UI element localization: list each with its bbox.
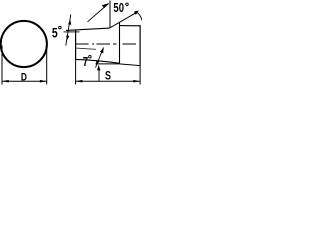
faint inner 7 deg reference line from tip bbox=[76, 48, 96, 49]
50 deg left arrowhead bbox=[102, 3, 109, 8]
arrowhead right of D dimension bbox=[40, 80, 47, 83]
arrowhead right of S dimension bbox=[133, 80, 140, 83]
extension line left of S dimension (below tip face) bbox=[75, 60, 77, 85]
50 deg arc tail curving to image edge bbox=[137, 12, 142, 20]
extension line left of D dimension bbox=[1, 46, 3, 85]
side view: cylinder top edge bbox=[120, 25, 141, 27]
7 deg diagonal arrowhead bbox=[100, 47, 104, 53]
arrowhead left of S dimension bbox=[76, 80, 83, 83]
arrowhead left of D dimension bbox=[2, 80, 9, 83]
centerline axis dash-dot bbox=[76, 43, 136, 45]
5 deg upper arrowhead bbox=[68, 20, 71, 25]
7 deg diagonal lower arrowhead bbox=[96, 61, 99, 66]
5 deg dimension arc line bbox=[66, 14, 71, 45]
svg-text:50: 50 bbox=[113, 2, 124, 16]
dimension line D bbox=[2, 80, 47, 82]
5 deg horizontal reference line bbox=[64, 31, 80, 33]
50 deg arrowhead on chamfer extension bbox=[134, 10, 139, 15]
7 deg leader diagonal with arrowhead at top bbox=[96, 48, 104, 68]
extension line right of D dimension bbox=[46, 45, 48, 85]
side view: 50 deg chamfer line extended with arrow bbox=[110, 12, 137, 28]
side view: top edge 5 deg taper bbox=[66, 28, 110, 30]
dimension line S bbox=[76, 80, 141, 82]
5 deg lower arrowhead bbox=[66, 35, 69, 40]
50 deg arc line left with arrow bbox=[88, 4, 109, 22]
7 deg vertical leader from S dimension line bbox=[98, 69, 100, 82]
side view: junction vertical between taper and cylinder bbox=[119, 23, 121, 64]
svg-text:7: 7 bbox=[83, 56, 88, 70]
side view: right face bbox=[139, 25, 141, 66]
50 deg vertical reference line bbox=[109, 1, 111, 29]
extension line right of S dimension (below right face) bbox=[139, 66, 141, 85]
circle front view of part, diameter D bbox=[1, 21, 47, 67]
side view: left tip face bbox=[75, 30, 77, 60]
svg-text:D: D bbox=[21, 71, 27, 83]
svg-text:5: 5 bbox=[52, 25, 58, 41]
svg-text:S: S bbox=[105, 70, 111, 82]
side view: cylinder bottom edge with reference extension to left bbox=[96, 64, 141, 66]
side view: bottom edge 7 deg taper bbox=[76, 59, 120, 63]
7 deg up arrowhead pointing at reference line bbox=[97, 65, 100, 71]
